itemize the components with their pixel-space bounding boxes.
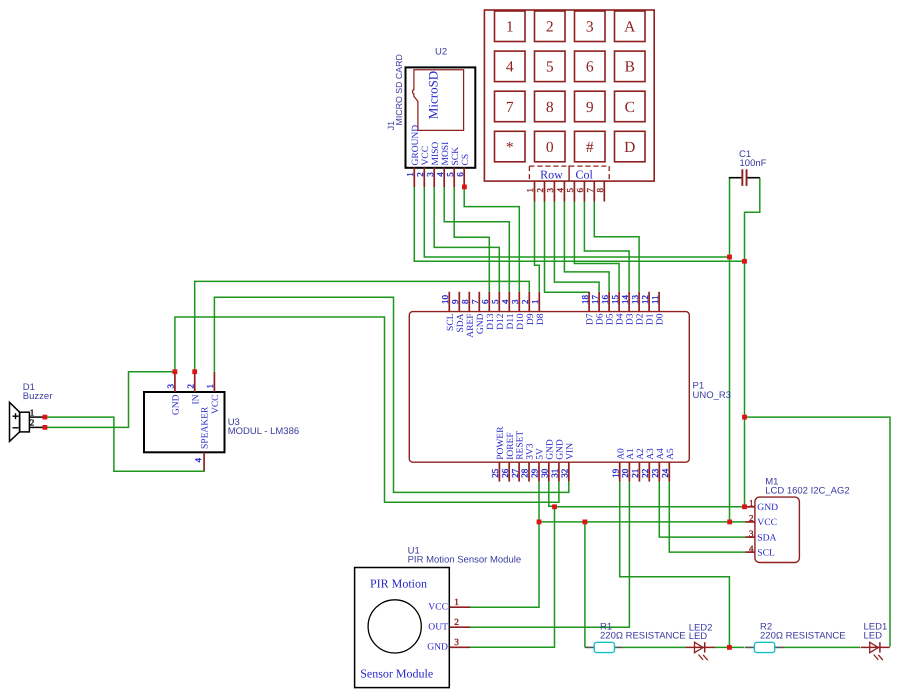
svg-text:15: 15 bbox=[610, 295, 620, 305]
svg-text:1: 1 bbox=[525, 188, 535, 193]
wire A5 to LCD SCL bbox=[669, 482, 745, 552]
wire A4 to LCD SDA bbox=[659, 482, 745, 537]
svg-text:GROUND: GROUND bbox=[411, 125, 421, 166]
svg-text:28: 28 bbox=[520, 468, 530, 478]
junction LCD GND node bbox=[742, 504, 747, 509]
svg-text:21: 21 bbox=[630, 469, 640, 478]
svg-text:3: 3 bbox=[510, 299, 520, 304]
svg-text:1: 1 bbox=[205, 384, 215, 389]
wire keypad6 to D3 bbox=[584, 202, 629, 292]
junction buzzer pin1 node bbox=[43, 415, 48, 420]
svg-text:1: 1 bbox=[506, 19, 514, 36]
svg-text:PIR Motion: PIR Motion bbox=[370, 576, 427, 590]
svg-text:D5: D5 bbox=[606, 313, 616, 325]
svg-text:19: 19 bbox=[610, 468, 620, 478]
svg-text:3V3: 3V3 bbox=[526, 443, 536, 460]
svg-text:AREF: AREF bbox=[466, 314, 476, 338]
svg-text:VCC: VCC bbox=[421, 146, 431, 166]
svg-text:SCK: SCK bbox=[451, 147, 461, 166]
wire VCC row 5V to LCD VCC bbox=[539, 521, 745, 523]
svg-text:SDA: SDA bbox=[456, 313, 466, 332]
pir module body bbox=[355, 568, 450, 688]
junction LED1 return node bbox=[742, 415, 747, 420]
wire keypad5 to D4 bbox=[574, 202, 619, 292]
pir lens circle bbox=[368, 600, 421, 653]
svg-text:A2: A2 bbox=[636, 448, 646, 460]
svg-text:A5: A5 bbox=[666, 448, 676, 460]
svg-text:3: 3 bbox=[586, 19, 594, 36]
resistor R1 body bbox=[594, 642, 614, 652]
wire R1 to LED2 bbox=[623, 646, 686, 648]
svg-text:GND: GND bbox=[427, 642, 448, 653]
svg-text:VCC: VCC bbox=[428, 602, 448, 613]
junction C1 left x VCC row node bbox=[727, 520, 732, 525]
svg-text:1: 1 bbox=[530, 300, 540, 305]
svg-text:2: 2 bbox=[546, 19, 554, 36]
keypad Row/Col dashed box bbox=[529, 165, 609, 167]
wire C1 right leg down to LCD GND bbox=[745, 178, 760, 507]
svg-text:CS: CS bbox=[461, 154, 471, 166]
wire C1 left leg down to VCC row bbox=[729, 178, 731, 522]
svg-text:2: 2 bbox=[185, 384, 195, 389]
svg-text:B: B bbox=[625, 59, 635, 76]
junction GND row node bbox=[552, 504, 557, 509]
svg-text:27: 27 bbox=[510, 468, 520, 478]
svg-text:4: 4 bbox=[555, 188, 565, 193]
svg-text:5V: 5V bbox=[536, 448, 546, 460]
amp module U3 body bbox=[144, 392, 225, 452]
svg-text:LED: LED bbox=[864, 631, 883, 642]
svg-text:17: 17 bbox=[590, 295, 600, 305]
keypad KP1 outer frame bbox=[484, 10, 654, 181]
wire SD CS to D10 bbox=[464, 187, 519, 292]
svg-text:D1: D1 bbox=[646, 313, 656, 325]
junction buzzer pin2 node bbox=[43, 425, 48, 430]
svg-text:4: 4 bbox=[506, 59, 514, 76]
svg-text:D9: D9 bbox=[526, 313, 536, 325]
svg-text:D3: D3 bbox=[626, 313, 636, 325]
svg-text:30: 30 bbox=[540, 468, 550, 478]
svg-text:14: 14 bbox=[620, 295, 630, 305]
svg-text:D0: D0 bbox=[656, 313, 666, 325]
svg-text:C: C bbox=[625, 99, 635, 116]
svg-text:3: 3 bbox=[749, 528, 754, 538]
microSD card symbol bbox=[413, 70, 464, 131]
wire A0 to LED row bbox=[620, 482, 730, 648]
svg-text:A: A bbox=[624, 19, 636, 36]
wire GND30 jog to GND row bbox=[549, 482, 555, 507]
svg-text:*: * bbox=[506, 139, 514, 156]
svg-text:3: 3 bbox=[454, 638, 459, 648]
svg-text:Buzzer: Buzzer bbox=[23, 391, 53, 402]
capacitor C1 plates bbox=[741, 169, 743, 186]
svg-text:#: # bbox=[586, 139, 594, 156]
wire keypad7 to D2 bbox=[594, 202, 639, 292]
junction VCC bus x C1 left bbox=[727, 255, 732, 260]
svg-text:220Ω RESISTANCE: 220Ω RESISTANCE bbox=[760, 630, 846, 641]
junction A0 x LED row node bbox=[727, 645, 732, 650]
svg-text:SDA: SDA bbox=[757, 532, 776, 543]
svg-text:7: 7 bbox=[585, 188, 595, 193]
arduino UNO P1 body bbox=[409, 312, 689, 463]
amp U3 pin stubs bbox=[174, 372, 176, 392]
svg-text:VCC: VCC bbox=[757, 517, 777, 528]
svg-text:Sensor Module: Sensor Module bbox=[360, 666, 433, 680]
svg-text:SCL: SCL bbox=[757, 547, 775, 558]
junction GROUND bus x C1 right bbox=[742, 259, 747, 264]
buzzer speaker symbol with + - bbox=[10, 402, 20, 441]
svg-text:0: 0 bbox=[546, 139, 554, 156]
wire GND branch down to PIR GND bbox=[470, 507, 555, 648]
svg-text:MISO: MISO bbox=[431, 142, 441, 166]
svg-text:13: 13 bbox=[630, 295, 640, 305]
svg-text:2: 2 bbox=[749, 513, 754, 523]
svg-text:100nF: 100nF bbox=[740, 158, 767, 169]
svg-text:VIN: VIN bbox=[565, 443, 575, 460]
junction 5V x VCC row node bbox=[537, 520, 542, 525]
junction U3 GND node bbox=[173, 369, 178, 374]
svg-text:23: 23 bbox=[650, 468, 660, 478]
svg-text:SCL: SCL bbox=[446, 313, 456, 331]
svg-text:D: D bbox=[624, 139, 635, 156]
wire LED1 return to GND net bbox=[745, 417, 891, 646]
wire R2 to LED1 bbox=[784, 646, 861, 648]
keypad keys 1-9,0,A-D,*,# bbox=[495, 11, 526, 42]
wire SD MOSI to D11 bbox=[444, 187, 509, 292]
svg-text:D13: D13 bbox=[486, 313, 496, 330]
svg-text:6: 6 bbox=[455, 172, 465, 177]
junction SD CS junction bbox=[462, 185, 467, 190]
svg-text:GND: GND bbox=[545, 439, 555, 460]
lcd module M1 body bbox=[755, 497, 800, 562]
svg-text:2: 2 bbox=[30, 418, 35, 428]
svg-text:D8: D8 bbox=[536, 313, 546, 325]
svg-text:GND: GND bbox=[476, 313, 486, 334]
wire SD SCK to D13 bbox=[454, 187, 489, 292]
svg-text:UNO_R3: UNO_R3 bbox=[693, 390, 732, 401]
svg-text:LCD 1602 I2C_AG2: LCD 1602 I2C_AG2 bbox=[765, 485, 850, 496]
wire keypad1 to D8 bbox=[535, 202, 540, 292]
wire 5V down to PIR VCC bbox=[470, 482, 539, 608]
svg-text:IN: IN bbox=[191, 394, 201, 404]
lcd pin stubs bbox=[745, 506, 755, 508]
svg-text:220Ω RESISTANCE: 220Ω RESISTANCE bbox=[600, 630, 686, 641]
capacitor C1 leads bbox=[729, 177, 742, 179]
led LED2 symbol bbox=[685, 646, 714, 648]
svg-text:PIR Motion Sensor Module: PIR Motion Sensor Module bbox=[408, 555, 522, 566]
resistor R2 leads bbox=[745, 646, 755, 648]
svg-text:Col: Col bbox=[576, 167, 594, 181]
svg-text:24: 24 bbox=[660, 468, 670, 478]
svg-text:D7: D7 bbox=[586, 313, 596, 325]
wire U3 GND up over to UNO GND31 bbox=[175, 317, 559, 502]
wire R1 feed from VCC row bbox=[584, 522, 586, 648]
svg-text:9: 9 bbox=[586, 99, 594, 116]
svg-text:D4: D4 bbox=[616, 313, 626, 325]
svg-text:RESET: RESET bbox=[516, 431, 526, 460]
svg-text:1: 1 bbox=[30, 407, 35, 417]
svg-text:GND: GND bbox=[556, 439, 566, 460]
svg-text:29: 29 bbox=[530, 468, 540, 478]
svg-text:VCC: VCC bbox=[211, 395, 221, 415]
svg-text:18: 18 bbox=[580, 295, 590, 305]
svg-text:4: 4 bbox=[500, 299, 510, 304]
svg-text:8: 8 bbox=[546, 99, 554, 116]
svg-text:5: 5 bbox=[445, 172, 455, 177]
svg-text:2: 2 bbox=[535, 188, 545, 193]
buzzer pin leads bbox=[29, 416, 43, 418]
wire keypad4 to D5 bbox=[564, 202, 609, 292]
svg-text:5: 5 bbox=[546, 59, 554, 76]
svg-text:4: 4 bbox=[435, 172, 445, 177]
svg-text:8: 8 bbox=[460, 299, 470, 304]
arduino top pin stubs bbox=[448, 292, 450, 312]
svg-text:A1: A1 bbox=[626, 448, 636, 460]
svg-text:MicroSD: MicroSD bbox=[425, 71, 440, 119]
svg-text:GND: GND bbox=[172, 394, 182, 415]
svg-text:7: 7 bbox=[506, 99, 514, 116]
svg-text:IOREF: IOREF bbox=[506, 432, 516, 459]
svg-text:16: 16 bbox=[600, 295, 610, 305]
wire A1 to PIR OUT bbox=[470, 482, 629, 628]
svg-text:22: 22 bbox=[640, 469, 650, 478]
wire keypad2 to D7 bbox=[545, 202, 590, 293]
svg-text:9: 9 bbox=[450, 299, 460, 304]
wire buzzer pin1 to U3 speaker bbox=[47, 417, 204, 471]
led LED1 symbol bbox=[861, 646, 890, 648]
svg-text:1: 1 bbox=[749, 498, 754, 508]
svg-text:12: 12 bbox=[640, 295, 650, 304]
svg-text:OUT: OUT bbox=[428, 622, 448, 633]
svg-text:D6: D6 bbox=[596, 313, 606, 325]
svg-text:4: 4 bbox=[749, 543, 754, 553]
svg-text:SPEAKER: SPEAKER bbox=[200, 406, 210, 449]
resistor R2 body bbox=[754, 642, 774, 652]
svg-text:31: 31 bbox=[550, 469, 560, 478]
svg-text:MODUL - LM386: MODUL - LM386 bbox=[228, 426, 299, 437]
wire SD MISO to D12 bbox=[434, 187, 499, 292]
svg-text:3: 3 bbox=[425, 172, 435, 177]
wire VCC bus from SD to C1 bbox=[424, 187, 729, 257]
wire U3 VCC over to UNO VIN bbox=[214, 297, 568, 492]
svg-text:Row: Row bbox=[540, 167, 563, 181]
svg-text:10: 10 bbox=[440, 295, 450, 305]
svg-text:11: 11 bbox=[650, 295, 660, 304]
microSD module body bbox=[406, 67, 476, 167]
svg-text:U2: U2 bbox=[435, 47, 447, 58]
svg-text:D11: D11 bbox=[506, 313, 516, 329]
wire GROUND bus from SD to C1 bbox=[414, 187, 744, 261]
svg-text:25: 25 bbox=[490, 468, 500, 478]
svg-text:D2: D2 bbox=[636, 313, 646, 325]
svg-text:POWER: POWER bbox=[496, 426, 506, 460]
svg-text:6: 6 bbox=[586, 59, 594, 76]
wire buzzer pin2 to U3 GND bbox=[47, 372, 173, 428]
svg-text:2: 2 bbox=[415, 172, 425, 177]
svg-text:3: 3 bbox=[166, 384, 176, 389]
svg-text:20: 20 bbox=[620, 468, 630, 478]
svg-text:5: 5 bbox=[565, 188, 575, 193]
svg-text:GND: GND bbox=[757, 502, 778, 513]
svg-text:2: 2 bbox=[454, 618, 459, 628]
wire keypad3 to D6 bbox=[554, 202, 599, 292]
svg-text:3: 3 bbox=[545, 188, 555, 193]
wire GND row to LCD GND bbox=[555, 506, 746, 508]
svg-text:2: 2 bbox=[520, 300, 530, 305]
wire LED2 to R2 bbox=[713, 646, 744, 648]
svg-text:6: 6 bbox=[575, 188, 585, 193]
svg-text:A4: A4 bbox=[656, 448, 666, 460]
svg-text:1: 1 bbox=[405, 172, 415, 177]
arduino bottom pin stubs bbox=[498, 462, 500, 482]
microSD pins 1-6 stubs bbox=[413, 167, 415, 187]
junction R1 feed node bbox=[583, 520, 588, 525]
svg-text:D10: D10 bbox=[516, 313, 526, 330]
resistor R1 leads bbox=[585, 646, 594, 648]
svg-text:26: 26 bbox=[500, 468, 510, 478]
svg-text:A3: A3 bbox=[646, 448, 656, 460]
svg-text:6: 6 bbox=[480, 299, 490, 304]
svg-text:D12: D12 bbox=[496, 313, 506, 330]
svg-text:MICRO SD CARD: MICRO SD CARD bbox=[394, 54, 404, 125]
svg-text:MOSI: MOSI bbox=[441, 142, 451, 166]
svg-text:32: 32 bbox=[560, 469, 570, 478]
svg-text:LED: LED bbox=[689, 631, 708, 642]
pir pin stubs bbox=[450, 606, 470, 608]
svg-text:1: 1 bbox=[454, 598, 459, 608]
junction U3 IN node bbox=[192, 369, 197, 374]
svg-text:4: 4 bbox=[193, 458, 203, 463]
svg-text:A0: A0 bbox=[616, 448, 626, 460]
svg-text:8: 8 bbox=[595, 188, 605, 193]
wire U3 IN to D9 bbox=[195, 281, 530, 372]
keypad pins 1-8 stubs and numbers bbox=[534, 181, 536, 201]
svg-text:7: 7 bbox=[470, 299, 480, 304]
svg-text:5: 5 bbox=[490, 299, 500, 304]
